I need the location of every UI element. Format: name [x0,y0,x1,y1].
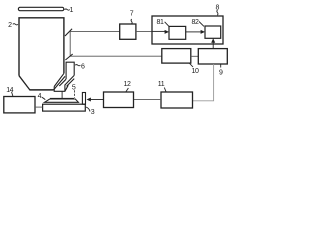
box 9 [198,49,227,64]
nozzle bend right wall [65,75,74,91]
svg-text:8: 8 [216,5,220,12]
tick on wire L2 [65,54,72,60]
nozzle tip [54,85,68,91]
label 8 leader [217,10,218,15]
box 8 [152,16,223,44]
arrow box12 to bracket [90,99,104,101]
svg-text:11: 11 [158,81,165,88]
svg-text:1: 1 [70,7,74,14]
nozzle bend right wall inner [67,79,75,87]
label 9 leader [220,64,222,67]
svg-text:7: 7 [130,11,134,18]
label 11 leader [164,88,166,92]
svg-text:10: 10 [192,68,199,75]
svg-text:2: 2 [8,22,12,29]
box 10 [162,49,191,64]
jet line from nozzle to substrate [61,91,63,98]
label 7 leader [131,19,132,24]
vessel 2 outline [19,18,64,76]
svg-text:4: 4 [38,93,42,100]
svg-text:82: 82 [192,19,199,26]
wire box10 to box9 [191,55,199,57]
tick on wire L1 [65,29,72,36]
nozzle 6 tube [66,62,74,79]
svg-text:6: 6 [81,64,85,71]
substrate 5 [50,98,74,99]
wire box7 to box8 [136,30,152,32]
box 14 [4,97,35,113]
wire box14 to base [35,106,43,108]
box 11 [161,92,193,108]
label 4 leader [42,97,46,100]
box 81 [169,26,186,39]
svg-text:81: 81 [157,19,164,26]
svg-text:5: 5 [72,85,76,92]
svg-text:3: 3 [91,109,95,116]
vessel funnel right diagonal outer [54,73,64,86]
wire box11 to box12 [134,99,162,101]
box 82 [205,26,221,38]
label 2 leader [13,24,18,25]
wire L2 vessel to unit 10 [70,55,162,57]
label 5 leader [73,90,75,98]
label 10 leader [190,63,194,67]
label 82 leader [199,22,204,27]
nozzle bend left wall [59,79,66,86]
lid 1 [18,7,63,10]
label 6 leader [75,65,80,66]
wire L1 vessel to unit 7 [70,30,120,32]
svg-text:9: 9 [219,69,223,76]
svg-text:12: 12 [124,81,131,88]
box 7 [120,24,136,39]
label 12 leader [126,88,128,92]
wire into box 81 with arrowhead [152,30,166,32]
arrow from box 9 up into 82 [212,41,214,49]
label 3 leader [86,107,90,112]
label 14 leader [12,92,14,97]
vessel funnel right diagonal inner [54,76,65,90]
holder 4 trapezoid [45,99,79,102]
label 81 leader [165,22,169,27]
box 12 [104,92,134,108]
bracket arm [82,93,85,105]
stage base 3 [43,104,86,111]
wire box9 down to box11 [193,64,214,101]
vessel funnel bottom [29,89,53,91]
arrow 81 to 82 [186,31,202,33]
label 1 leader [65,9,70,10]
svg-text:14: 14 [6,87,13,94]
wire vertical connector [69,31,71,56]
vessel funnel left diagonal [19,76,30,90]
